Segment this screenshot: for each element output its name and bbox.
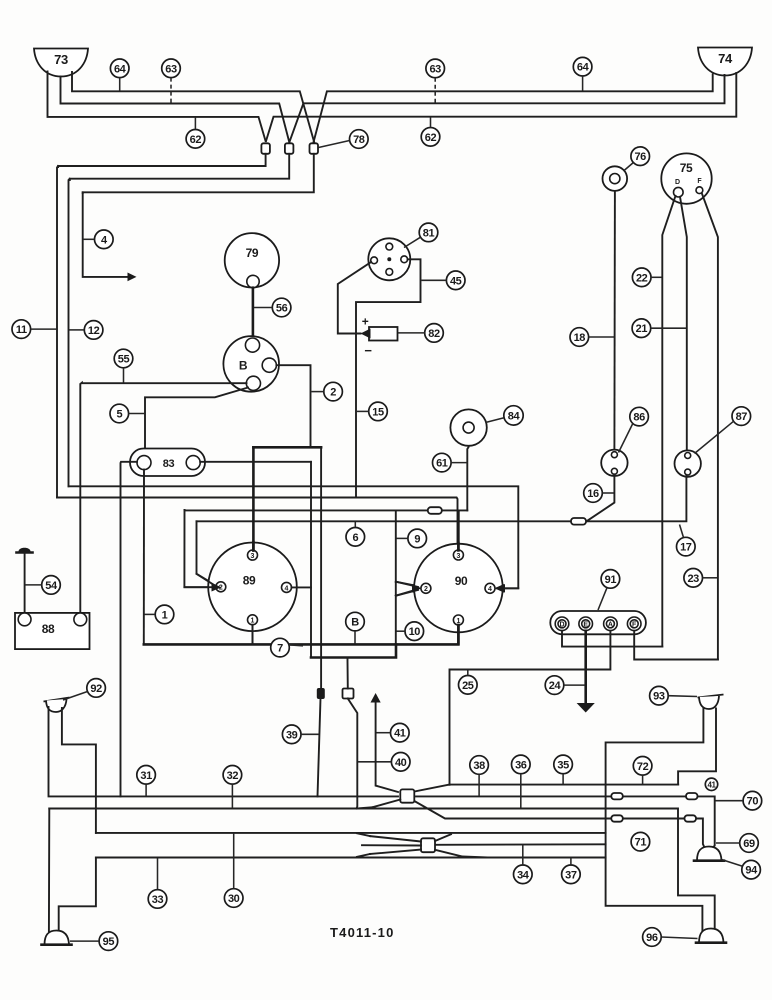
svg-text:84: 84 xyxy=(508,410,521,422)
svg-text:93: 93 xyxy=(653,691,665,703)
balloon 25 xyxy=(459,670,478,694)
balloon 34 xyxy=(514,844,533,883)
svg-text:81: 81 xyxy=(423,227,435,239)
wire 16 : 86 bottom down and diagonal to y521 run xyxy=(587,474,615,521)
balloon B xyxy=(346,612,365,643)
balloon I xyxy=(145,605,174,624)
balloon 64 right xyxy=(573,57,592,90)
svg-text:41: 41 xyxy=(707,780,716,789)
wire 9/10 run : y510.4 horizontal xyxy=(185,509,468,512)
wire : lamp 95 left riser xyxy=(48,809,50,934)
svg-text:−: − xyxy=(364,343,372,358)
svg-text:62: 62 xyxy=(425,132,437,144)
svg-text:B: B xyxy=(239,359,248,373)
svg-text:95: 95 xyxy=(103,936,115,948)
wire 22 : dynamo D to 91 terminal D xyxy=(662,196,675,647)
balloon 17 xyxy=(677,525,696,556)
svg-text:2: 2 xyxy=(330,387,336,399)
svg-text:55: 55 xyxy=(118,354,130,366)
wire : feeder into 89 terminal 3 (over circle) xyxy=(252,542,255,551)
wire I : 83 left terminal down, along y644 to 89 terminal 1 xyxy=(143,470,145,645)
bowtie connector B1 xyxy=(357,789,415,808)
balloon 96 xyxy=(643,928,698,947)
wire : lamp 93 left lead down to 92/96 chain xyxy=(606,709,704,932)
svg-text:78: 78 xyxy=(353,134,365,146)
wire : bold vertical to 89 terminal 3 xyxy=(252,447,255,550)
svg-text:F: F xyxy=(697,178,702,185)
balloon 38 xyxy=(470,756,489,796)
svg-text:2: 2 xyxy=(424,586,428,593)
balloon 86 xyxy=(619,407,649,452)
wire 45 : distributor to coil top, left of coil down as wire 15 xyxy=(356,259,421,497)
svg-text:40: 40 xyxy=(395,757,407,769)
svg-text:17: 17 xyxy=(680,542,692,554)
svg-text:87: 87 xyxy=(736,411,748,423)
wire 2 run : B terminal wire y447.3 xyxy=(253,446,321,449)
arrow head wire 4 xyxy=(128,273,137,282)
wire 64 left : lamp73 to connector C3 (top run y=91) xyxy=(72,72,314,142)
balloon 92 xyxy=(63,679,105,700)
ground symbol 54 xyxy=(17,548,33,615)
balloon 71 xyxy=(631,832,650,851)
svg-text:1: 1 xyxy=(162,609,168,621)
svg-text:34: 34 xyxy=(517,869,530,881)
svg-text:22: 22 xyxy=(636,272,648,284)
svg-text:79: 79 xyxy=(246,246,259,260)
wire : feeder into 90 terminal 4 with arrow xyxy=(497,587,518,589)
balloon 21 xyxy=(632,319,686,338)
svg-text:25: 25 xyxy=(462,680,474,692)
svg-text:1: 1 xyxy=(251,618,255,625)
balloon 62 right xyxy=(421,117,440,146)
wire 62 right : lamp74 lower run xyxy=(266,73,736,141)
svg-text:91: 91 xyxy=(605,574,617,586)
wire : 83 right terminal run y461.8 xyxy=(200,461,311,463)
balloon 5 xyxy=(110,404,145,423)
balloon 15 xyxy=(357,402,387,421)
balloon 37 xyxy=(562,858,581,884)
small balloon 41b xyxy=(705,778,717,790)
wire 55 : switch B bottom terminal left then down to battery + xyxy=(80,383,246,615)
balloon 62 left xyxy=(186,118,205,149)
flasher unit 76 xyxy=(603,166,628,191)
harness L5 : y857.5 xyxy=(96,857,606,859)
wire 4 : vertical from corner x83 with arrow stub xyxy=(83,192,130,277)
svg-text:39: 39 xyxy=(286,729,298,741)
svg-text:A: A xyxy=(608,622,613,629)
wire 12 : left vertical from corner x70 down xyxy=(69,179,70,487)
svg-text:5: 5 xyxy=(116,409,122,421)
balloon 30 xyxy=(224,833,243,907)
harness L3 : y808.5 from lamp95 riser xyxy=(49,809,714,931)
lamp unit 89 xyxy=(208,543,297,632)
balloon 64 left xyxy=(110,59,129,91)
balloon 55 xyxy=(114,349,133,382)
svg-text:21: 21 xyxy=(636,323,648,335)
svg-text:16: 16 xyxy=(587,488,599,500)
svg-text:F: F xyxy=(632,622,637,629)
svg-text:4: 4 xyxy=(488,586,492,593)
svg-text:76: 76 xyxy=(634,151,646,163)
wire 64 right : lamp74 to connector C3 (top run) xyxy=(314,75,713,142)
wire : vertical x311 down to y657.5 xyxy=(310,462,312,658)
svg-text:92: 92 xyxy=(90,683,102,695)
connector C3 xyxy=(310,143,319,154)
junction box 86 xyxy=(601,450,627,476)
wire : feeder into 90 terminal 3 (over circle) xyxy=(457,543,460,550)
balloon 12 xyxy=(69,321,103,340)
balloon 84 xyxy=(486,406,524,425)
harness L818 : bowtie low output to lamp 94 xyxy=(414,801,704,848)
wire : y521 corner down to 89 terminal 2 xyxy=(197,521,217,585)
balloon 10 xyxy=(397,622,424,641)
svg-text:24: 24 xyxy=(549,680,562,692)
svg-text:31: 31 xyxy=(140,770,152,782)
rear lamp 95 xyxy=(42,931,72,945)
balloon 69 xyxy=(716,834,758,853)
balloon 36 xyxy=(512,755,531,808)
wire 31 run : lamp 92 down to harness L2 y796.4 xyxy=(49,707,399,796)
svg-text:82: 82 xyxy=(428,328,440,340)
wire 18 : flasher 76 down to junction box 86 xyxy=(613,191,616,450)
fuse block 91 xyxy=(550,611,646,634)
wire 21 : dynamo D to junction box 87 top xyxy=(680,197,687,451)
svg-text:70: 70 xyxy=(747,796,759,808)
side lamp 93 xyxy=(698,695,724,710)
svg-text:3: 3 xyxy=(456,553,460,560)
ignition switch B xyxy=(223,336,279,392)
tail lamp 94 xyxy=(694,847,724,861)
harness L4b : y844 xyxy=(435,843,606,846)
balloon 35 xyxy=(554,755,573,784)
svg-text:33: 33 xyxy=(152,894,164,906)
balloon 4 xyxy=(83,230,113,249)
ignition coil 82 xyxy=(361,315,398,359)
balloon 94 xyxy=(722,860,761,880)
svg-text:90: 90 xyxy=(455,574,468,588)
wire 24 : 91 terminal E down to ground arrow xyxy=(584,631,587,703)
arrow into 89 terminal 2 xyxy=(213,583,223,592)
svg-text:+: + xyxy=(362,315,369,329)
svg-text:4: 4 xyxy=(285,585,289,592)
wire : feeder into 90 terminal 1 xyxy=(457,625,460,644)
balloon 63 right xyxy=(426,59,445,103)
wire 23 : dynamo F down right side to 91 terminal F xyxy=(702,193,718,659)
harness L4 : y832.9 xyxy=(96,832,606,834)
pill connectors on L818 xyxy=(611,815,623,821)
balloon 24 xyxy=(545,676,585,695)
balloon 22 xyxy=(632,268,661,287)
wire : feeders into 90 terminal 2 with arrow xyxy=(396,582,418,587)
balloon 78 xyxy=(319,130,369,149)
svg-text:72: 72 xyxy=(637,761,649,773)
svg-text:88: 88 xyxy=(42,622,55,636)
wire : vertical x321 down through junction to harness xyxy=(320,447,322,689)
balloon 31 xyxy=(137,766,156,797)
balloon 18 xyxy=(570,328,614,347)
svg-text:6: 6 xyxy=(352,532,358,544)
svg-text:63: 63 xyxy=(165,63,177,75)
svg-text:9: 9 xyxy=(414,533,420,545)
wire : 89 terminal 1 stub xyxy=(252,625,254,645)
svg-text:64: 64 xyxy=(114,63,127,75)
svg-text:41: 41 xyxy=(394,728,406,740)
horn 84 xyxy=(450,409,486,445)
balloon 56 xyxy=(254,298,291,317)
wire : connector C3 down-left to corner x83 xyxy=(83,154,314,193)
svg-text:83: 83 xyxy=(163,458,175,470)
wire : bold horizontal y657.5 xyxy=(311,644,396,657)
balloon 41 xyxy=(377,723,410,742)
wire 39 : down from connector to harness L2 xyxy=(318,699,321,797)
junction connector white square xyxy=(343,689,354,699)
wire 56 : ammeter 79 to switch B top terminal xyxy=(252,288,255,339)
svg-text:94: 94 xyxy=(745,865,758,877)
battery 88 xyxy=(15,613,90,649)
svg-text:73: 73 xyxy=(54,52,68,67)
svg-text:B: B xyxy=(351,617,359,629)
balloon 7 xyxy=(271,638,303,657)
svg-text:75: 75 xyxy=(680,161,693,175)
svg-text:54: 54 xyxy=(45,580,58,592)
svg-text:3: 3 xyxy=(251,553,255,560)
balloon 11 xyxy=(12,320,57,339)
wire 40 : white square up to y657.5 and down to L3 junction xyxy=(347,658,349,689)
side lamp 92 xyxy=(44,698,70,713)
balloon 6 xyxy=(346,522,365,546)
svg-text:12: 12 xyxy=(88,325,100,337)
pill connectors on L2 xyxy=(611,793,623,799)
arrow into 90 terminal 4 xyxy=(496,584,506,593)
wire 41 : arrow wire down to bowtie connector xyxy=(371,693,381,703)
connector C1 xyxy=(261,143,270,154)
wire : 90 terminal 3 bold stub xyxy=(457,511,460,550)
balloon 2 + wire 2 : switch B right terminal down to y447 xyxy=(276,365,310,447)
svg-text:89: 89 xyxy=(243,574,256,588)
wire 35 : lamp 93 right lead down to L1 xyxy=(678,709,716,785)
junction connector dark on wire 39 xyxy=(317,689,324,699)
svg-text:96: 96 xyxy=(646,932,658,944)
balloon 93 xyxy=(650,686,697,705)
svg-text:11: 11 xyxy=(16,324,27,336)
lamp unit 90 xyxy=(414,544,503,633)
wire : connector C2 down-left to corner x70 xyxy=(70,154,289,180)
wire 62 left : lamp73 lower run y=116.9 xyxy=(48,72,266,142)
svg-text:15: 15 xyxy=(372,406,384,418)
bowtie connector B2 xyxy=(357,833,490,857)
tail lamp 96 xyxy=(696,929,726,943)
svg-text:62: 62 xyxy=(190,134,202,146)
connector on wire 9 run xyxy=(428,507,442,514)
stub diagonals into 90 terminal 2 xyxy=(396,582,420,596)
wire 11 : left vertical from corner x58 down xyxy=(57,166,58,498)
balloon 40 xyxy=(358,753,410,772)
svg-text:10: 10 xyxy=(409,626,421,638)
svg-text:37: 37 xyxy=(565,869,577,881)
balloon 61 xyxy=(433,453,468,472)
balloon 23 xyxy=(684,569,717,588)
balloon 95 xyxy=(70,932,118,951)
svg-text:45: 45 xyxy=(450,275,462,287)
wire 1 : stub left of 83 down (to lamp 92 feed) xyxy=(121,462,138,797)
svg-text:69: 69 xyxy=(743,838,755,850)
balloon 81 xyxy=(404,223,438,247)
wire : feeder into 89 terminal 1 xyxy=(252,625,254,645)
connector C2 xyxy=(285,143,294,154)
wire 61 : horn down to y510 run xyxy=(467,433,468,510)
wire 12 run : y486.3 horizontal to 90 terminal 4 xyxy=(69,486,519,588)
balloon 33 xyxy=(148,858,167,908)
harness L1 : y784.6 xyxy=(414,785,678,792)
wire : distributor left tower to coil arrow xyxy=(338,262,371,334)
wire 7 : bold horizontal y644 from x144 to 90 terminal 1 xyxy=(144,625,459,644)
balloon 39 xyxy=(282,725,318,744)
balloon 54 xyxy=(26,576,61,595)
fuse holder 83 xyxy=(130,449,205,477)
svg-text:18: 18 xyxy=(574,332,586,344)
balloon 76 xyxy=(624,147,650,171)
svg-text:36: 36 xyxy=(515,759,527,771)
wire D : 91 terminal D to wire 22 vertical xyxy=(562,631,662,647)
svg-text:74: 74 xyxy=(718,51,733,66)
harness L2 right : bowtie to lamp 94 xyxy=(416,796,715,848)
wire 63 right : lamp74 middle run xyxy=(290,75,725,142)
svg-text:7: 7 xyxy=(277,643,283,655)
headlamp 74 xyxy=(698,48,752,76)
svg-text:64: 64 xyxy=(577,62,590,74)
balloon 32 xyxy=(223,766,242,809)
balloon 70 xyxy=(716,791,762,810)
balloon 45 xyxy=(422,271,466,290)
wire : lamp 92 second lead jog down to L4 xyxy=(62,708,96,833)
balloon 63 left xyxy=(162,59,181,103)
balloon 16 xyxy=(584,484,614,503)
svg-text:2: 2 xyxy=(219,585,223,592)
svg-text:30: 30 xyxy=(228,893,240,905)
dynamo 75 xyxy=(661,153,711,203)
svg-text:32: 32 xyxy=(227,770,239,782)
wire 9/10 vertical x396 down to y644 xyxy=(395,510,397,644)
svg-text:T4011-10: T4011-10 xyxy=(330,925,395,940)
svg-text:35: 35 xyxy=(557,759,569,771)
wire : connector C1 down-left to corner x58 xyxy=(58,154,266,167)
svg-text:86: 86 xyxy=(633,412,645,424)
junction box 87 xyxy=(675,450,701,476)
wire : L5 left end down-jog to lamp 95 xyxy=(59,858,96,932)
balloon 9 xyxy=(397,529,427,548)
wire 25 : 91 terminal A left run y669.5 and down to harness xyxy=(450,631,611,785)
connector on wire 17 xyxy=(571,518,586,525)
svg-text:56: 56 xyxy=(276,303,288,315)
ammeter 79 xyxy=(225,233,279,288)
svg-text:71: 71 xyxy=(635,837,647,849)
distributor 81 xyxy=(368,238,410,280)
wire 11 run : y497.5 horizontal to 90 terminal 3 xyxy=(57,498,458,550)
wire 6/17 : long horizontal y521.3 from 89 term2 corner to 87 bottom xyxy=(197,475,687,522)
balloon 82 xyxy=(398,324,443,343)
wire 5 : fuse 83 left terminal up and to switch B bottom terminal xyxy=(145,388,248,456)
svg-text:D: D xyxy=(559,622,564,629)
svg-text:23: 23 xyxy=(687,573,699,585)
headlamp 73 xyxy=(34,49,88,77)
balloon 87 xyxy=(695,407,751,454)
balloon 72 xyxy=(633,757,652,785)
wire : y510 left corner down to 89 terminal 2 arrow xyxy=(184,510,213,587)
svg-text:38: 38 xyxy=(473,760,485,772)
balloon 91 xyxy=(598,570,620,610)
wire : feeders into 89 terminal 2 with arrow xyxy=(197,574,215,586)
svg-text:D: D xyxy=(675,179,680,186)
svg-text:E: E xyxy=(583,622,588,629)
wire F : 91 terminal F to wire 23 vertical xyxy=(634,631,718,660)
svg-text:63: 63 xyxy=(429,63,441,75)
wire : 89 terminal 4 stub to x311 xyxy=(292,586,312,588)
svg-text:61: 61 xyxy=(436,458,448,470)
wire 63 left : lamp73 middle run y=103.5 xyxy=(61,77,290,142)
